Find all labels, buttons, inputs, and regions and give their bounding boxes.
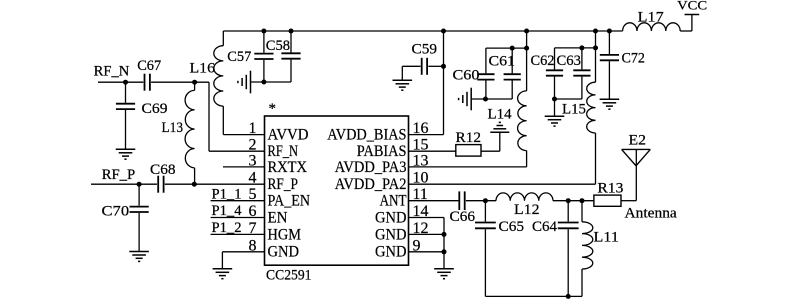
svg-text:RF_P: RF_P [102, 167, 136, 183]
svg-text:C70: C70 [102, 204, 130, 220]
capacitor C59 [422, 58, 427, 75]
ground [459, 88, 472, 111]
svg-text:R13: R13 [597, 181, 623, 197]
pin number 11 [413, 186, 428, 203]
capacitor C65 [475, 223, 496, 229]
inductor L13 [185, 90, 195, 167]
pin name RF_P [268, 176, 299, 193]
wire [402, 65, 420, 67]
label P1_1 [212, 186, 242, 202]
pin number 8 [249, 237, 257, 254]
pin name AVDD_PA2 [335, 176, 407, 193]
wire [680, 30, 692, 32]
wire [138, 213, 140, 251]
wire [471, 98, 512, 100]
node rail C72 tap [607, 29, 612, 34]
op-amp U1 CC2591 body [265, 116, 409, 265]
pin name GND [268, 244, 300, 261]
pin name ANT [380, 193, 407, 210]
ground [213, 269, 233, 279]
svg-text:RXTX: RXTX [268, 159, 308, 176]
wire pin11 stub [409, 200, 459, 202]
node pin12 node [442, 232, 447, 237]
node C63 tap [579, 45, 584, 50]
label C70 [102, 204, 130, 220]
inductor L14 [518, 91, 527, 151]
node rail C58 tap [289, 29, 294, 34]
wire [194, 168, 196, 184]
svg-text:L17: L17 [638, 9, 665, 25]
label C62 [531, 53, 555, 69]
pin number 5 [249, 186, 257, 203]
node C57 gnd node [261, 80, 266, 85]
wire [208, 82, 210, 151]
node C62 gnd node [552, 97, 557, 102]
svg-text:GND: GND [375, 244, 407, 261]
resistor R12 [456, 145, 481, 157]
svg-text:C64: C64 [532, 219, 557, 235]
label P1_2 [212, 220, 242, 236]
pin number 2 [249, 137, 257, 154]
node rail C59 tap [441, 29, 446, 34]
wire [401, 66, 403, 80]
wire [608, 61, 610, 99]
wire pin9 stub [409, 251, 445, 253]
capacitor C63 [573, 70, 590, 75]
inductor L12 [496, 193, 553, 201]
wire [222, 106, 224, 135]
wire [251, 81, 292, 83]
wire [553, 200, 594, 202]
wire pin8 stub [222, 251, 264, 253]
svg-text:GND: GND [375, 226, 407, 243]
wire pin3 stub [223, 166, 265, 168]
svg-text:AVDD_PA2: AVDD_PA2 [335, 176, 407, 193]
wire [511, 81, 513, 100]
wire pin10 [409, 183, 596, 185]
inductor L15 [587, 82, 596, 133]
inductor L16 [214, 46, 224, 106]
inductor L17 [623, 23, 681, 31]
svg-text:P1_2: P1_2 [212, 220, 242, 236]
svg-text:C57: C57 [227, 49, 251, 65]
ground [129, 252, 149, 262]
capacitor C64 [558, 223, 579, 229]
wire [511, 48, 513, 73]
svg-text:*: * [269, 101, 277, 117]
wire top supply rail [223, 30, 622, 32]
ground [600, 99, 620, 109]
wire pin5 stub [211, 200, 265, 202]
label C69 [142, 101, 168, 117]
wire [691, 15, 693, 32]
wire [290, 31, 292, 53]
pin number 15 [413, 137, 429, 154]
capacitor C70 [130, 207, 149, 212]
label R13 [597, 181, 623, 197]
pin name HGM [268, 226, 302, 243]
node bottom rail node [566, 294, 571, 299]
capacitor C57 [254, 54, 273, 59]
wire [221, 252, 223, 269]
capacitor C66 [459, 191, 464, 210]
wire [443, 218, 445, 269]
wire [263, 31, 265, 53]
label L15 [562, 102, 586, 118]
capacitor C62 [546, 70, 563, 75]
pin number 12 [413, 220, 429, 237]
label C64 [532, 219, 557, 235]
node C64 tap [566, 198, 571, 203]
pin number 7 [249, 220, 257, 237]
label R12 [456, 130, 482, 146]
wire [581, 48, 583, 70]
wire bottom rail [485, 295, 582, 297]
wire [125, 82, 127, 103]
svg-text:C58: C58 [266, 38, 290, 54]
wire [428, 65, 443, 67]
pin name RF_N [268, 143, 299, 160]
label RF_P [102, 167, 136, 183]
svg-text:ANT: ANT [380, 193, 407, 210]
svg-text:C67: C67 [137, 58, 161, 74]
inductor L11 [582, 222, 593, 269]
wire RF_P [91, 183, 157, 185]
pin number 10 [413, 170, 429, 187]
wire [194, 82, 196, 90]
label C68 [150, 162, 176, 178]
label C66 [450, 209, 476, 225]
label C58 [266, 38, 290, 54]
label L13 [162, 120, 184, 136]
svg-text:AVDD_BIAS: AVDD_BIAS [327, 127, 406, 144]
svg-text:C63: C63 [557, 53, 582, 69]
pin name GND [375, 244, 407, 261]
pin name AVVD [268, 127, 309, 144]
wire pin2 stub [209, 150, 265, 152]
pin number 1 [249, 120, 257, 137]
wire [595, 31, 597, 82]
svg-text:GND: GND [268, 244, 300, 261]
wire [581, 269, 583, 296]
svg-text:PABIAS: PABIAS [357, 143, 407, 160]
wire antenna stem [635, 149, 637, 200]
wire pin13 [409, 166, 527, 168]
wire [222, 31, 224, 46]
label C59 [412, 42, 438, 58]
wire [290, 60, 292, 82]
pin number 13 [413, 152, 429, 169]
node rail C57 tap [261, 29, 266, 34]
wire [567, 201, 569, 222]
wire [555, 47, 596, 49]
wire pin16 stub [409, 134, 444, 136]
VCC terminal [685, 14, 700, 16]
svg-text:L13: L13 [162, 120, 184, 136]
node L13 top node [192, 80, 197, 85]
wire [466, 200, 496, 202]
label L14 [488, 107, 513, 123]
svg-text:L11: L11 [594, 230, 619, 246]
wire pin15 stub [409, 150, 456, 152]
label L12 [514, 202, 540, 218]
svg-text:C72: C72 [622, 51, 645, 67]
svg-text:AVVD: AVVD [268, 127, 309, 144]
wire [138, 184, 140, 206]
pin name AVDD_BIAS [327, 127, 406, 144]
svg-text:Antenna: Antenna [625, 206, 678, 222]
pin number 9 [413, 237, 421, 254]
asterisk mark [269, 101, 277, 117]
wire [567, 229, 569, 296]
svg-text:RF_N: RF_N [268, 143, 299, 160]
svg-text:C60: C60 [453, 67, 480, 83]
node C65 tap [483, 198, 488, 203]
ground [116, 149, 136, 159]
wire pin1 stub [223, 134, 264, 136]
svg-text:L15: L15 [562, 102, 586, 118]
svg-text:C69: C69 [142, 101, 168, 117]
svg-text:EN: EN [268, 209, 288, 226]
wire pin6 stub [211, 217, 265, 219]
svg-text:L12: L12 [514, 202, 540, 218]
svg-text:C62: C62 [531, 53, 555, 69]
svg-text:P1_1: P1_1 [212, 186, 242, 202]
wire [125, 110, 127, 149]
wire [484, 229, 486, 296]
svg-text:P1_4: P1_4 [212, 203, 242, 219]
wire [595, 133, 597, 184]
svg-text:C66: C66 [450, 209, 476, 225]
pin number 6 [249, 203, 257, 220]
svg-text:PA_EN: PA_EN [268, 193, 311, 210]
capacitor C69 [116, 104, 135, 109]
wire [481, 150, 500, 152]
pin number 14 [413, 203, 429, 220]
wire [485, 81, 487, 100]
label RF_N [94, 63, 130, 79]
node C62 C63 tap [593, 45, 598, 50]
pin name PA_EN [268, 193, 311, 210]
svg-text:C68: C68 [150, 162, 176, 178]
pin name AVDD_PA3 [335, 159, 407, 176]
wire [555, 98, 582, 100]
capacitor C58 [281, 53, 300, 58]
node C60 gnd node [483, 97, 488, 102]
node L11 tap [580, 198, 585, 203]
label C60 [453, 67, 480, 83]
node rail L15 tap [593, 29, 598, 34]
wire [581, 77, 583, 99]
ground [545, 116, 565, 126]
node C60 C61 tap [524, 46, 529, 51]
pin name RXTX [268, 159, 308, 176]
svg-text:L16: L16 [190, 61, 216, 77]
capacitor C60 [477, 74, 494, 79]
pin number 3 [249, 152, 257, 169]
label L16 [190, 61, 216, 77]
wire [443, 31, 445, 135]
capacitor C67 [145, 74, 150, 91]
label VCC [677, 0, 707, 13]
resistor R13 [594, 195, 621, 206]
node rail L14 tap [524, 29, 529, 34]
label C63 [557, 53, 582, 69]
ground [490, 122, 509, 132]
wire [499, 132, 501, 151]
antenna E2 [622, 149, 651, 165]
ground [393, 80, 413, 90]
capacitor C68 [158, 176, 163, 193]
wire [554, 99, 556, 116]
label L11 [594, 230, 619, 246]
wire [151, 81, 209, 83]
svg-text:RF_P: RF_P [268, 176, 299, 193]
label Antenna [625, 206, 678, 222]
wire [608, 31, 610, 54]
svg-text:R12: R12 [456, 130, 482, 146]
wire [484, 201, 486, 222]
label CC2591 [266, 268, 312, 284]
wire [554, 48, 556, 70]
svg-text:C65: C65 [499, 219, 525, 235]
label C67 [137, 58, 161, 74]
ground [238, 71, 251, 94]
pin name EN [268, 209, 288, 226]
svg-text:GND: GND [375, 209, 407, 226]
node L13 bottom node [192, 182, 197, 187]
svg-text:AVDD_PA3: AVDD_PA3 [335, 159, 407, 176]
svg-text:HGM: HGM [268, 226, 302, 243]
svg-text:RF_N: RF_N [94, 63, 130, 79]
svg-text:CC2591: CC2591 [266, 268, 312, 284]
wire pin12 stub [409, 233, 445, 235]
label C57 [227, 49, 251, 65]
capacitor C61 [504, 74, 521, 79]
node RF_P node [137, 182, 142, 187]
node C59 node [441, 64, 446, 69]
label P1_4 [212, 203, 242, 219]
pin number 4 [249, 170, 257, 187]
label C61 [489, 54, 516, 70]
pin number 16 [413, 120, 429, 137]
svg-text:VCC: VCC [677, 0, 707, 13]
wire [485, 48, 487, 73]
pin name GND [375, 209, 407, 226]
node RF_N node [123, 80, 128, 85]
ground [434, 269, 454, 279]
wire pin7 stub [211, 233, 265, 235]
wire [554, 77, 556, 99]
svg-text:C61: C61 [489, 54, 516, 70]
capacitor C72 [600, 55, 619, 60]
wire [263, 60, 265, 82]
wire [526, 31, 528, 91]
wire [526, 151, 528, 167]
wire [621, 200, 636, 202]
label C72 [622, 51, 645, 67]
node C61 tap [510, 46, 515, 51]
pin name PABIAS [357, 143, 407, 160]
label L17 [638, 9, 665, 25]
wire [581, 201, 583, 222]
wire pin4 [165, 183, 265, 185]
wire RF_N [98, 81, 143, 83]
svg-text:E2: E2 [629, 133, 647, 149]
node pin9 node [442, 249, 447, 254]
wire [486, 47, 527, 49]
label E2 [629, 133, 647, 149]
svg-text:C59: C59 [412, 42, 438, 58]
wire pin14 stub [409, 217, 445, 219]
svg-text:L14: L14 [488, 107, 513, 123]
label C65 [499, 219, 525, 235]
pin name GND [375, 226, 407, 243]
